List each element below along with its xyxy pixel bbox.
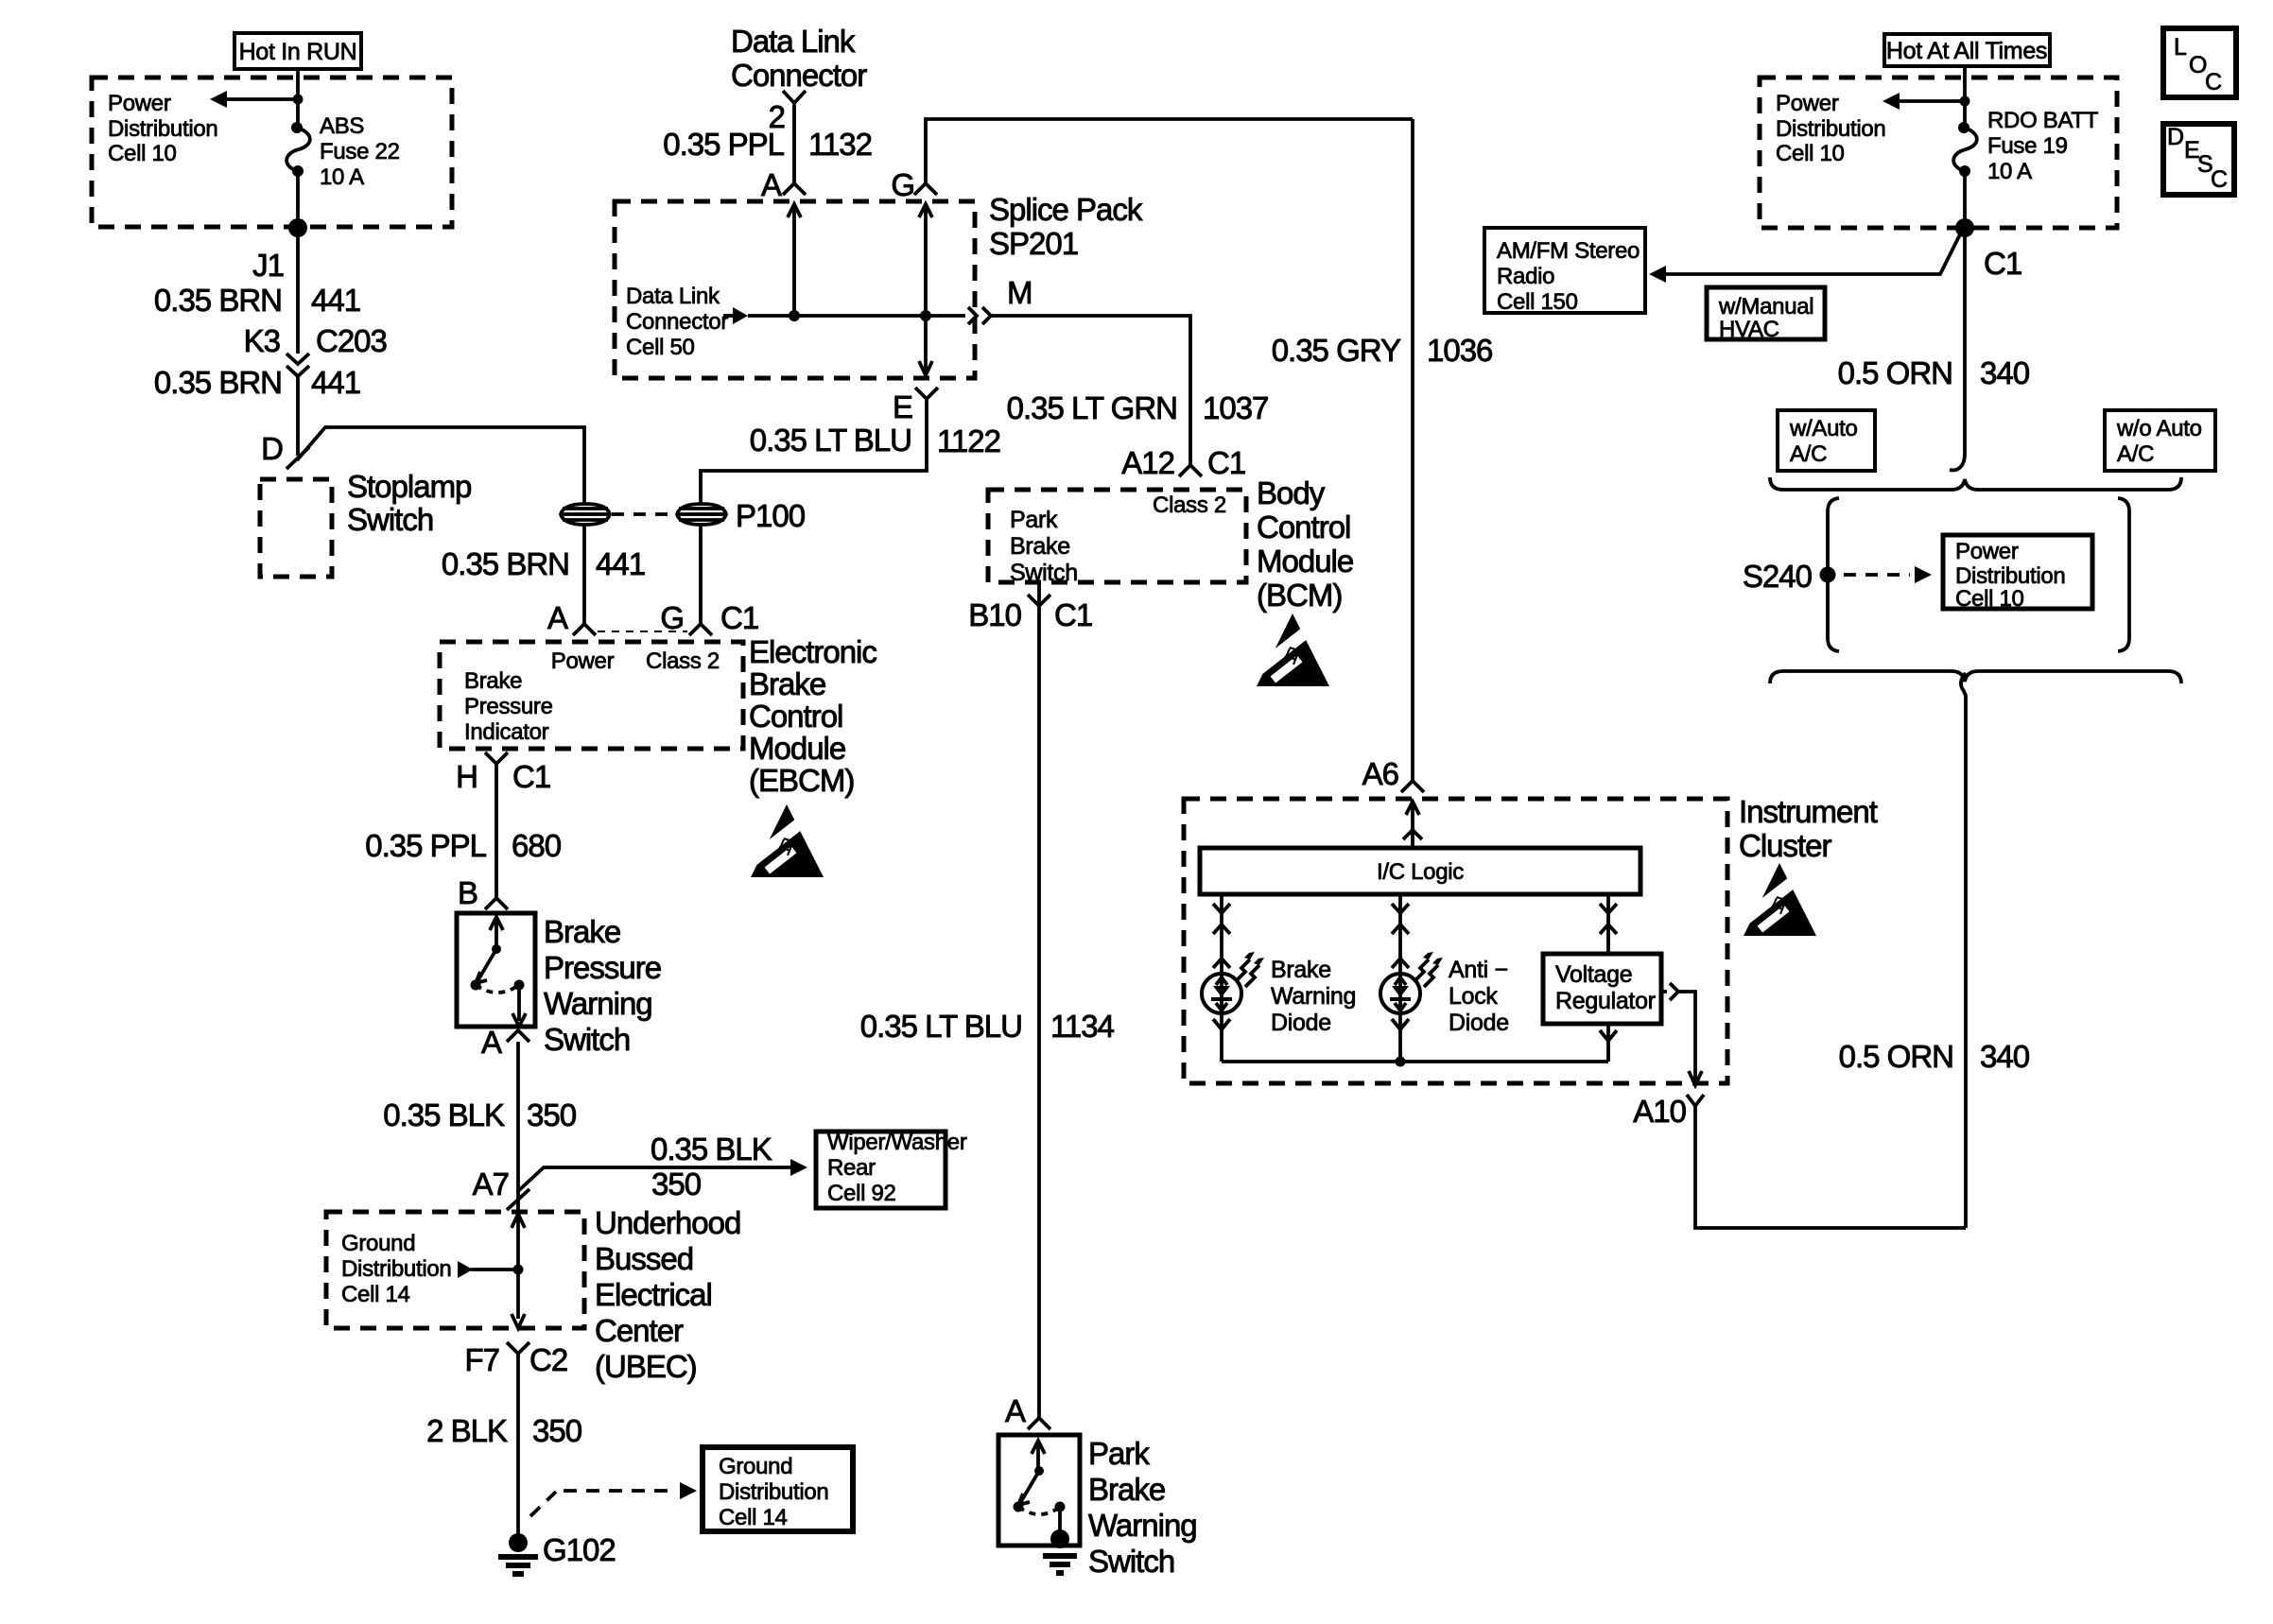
svg-text:Distribution: Distribution (719, 1479, 828, 1505)
svg-text:Instrument: Instrument (1739, 794, 1878, 829)
svg-text:Hot At All Times: Hot At All Times (1886, 38, 2047, 64)
svg-text:(EBCM): (EBCM) (749, 763, 854, 798)
wire H to B (495, 764, 498, 898)
svg-text:Cell 14: Cell 14 (719, 1505, 788, 1530)
grommet (left of P100) (561, 504, 610, 525)
Splice Pack dashed box (615, 201, 975, 378)
svg-text:Lock: Lock (1449, 983, 1498, 1010)
svg-text:(BCM): (BCM) (1257, 578, 1342, 613)
wire label 0.35 BRN 441 (second) (154, 365, 360, 400)
svg-text:A: A (761, 167, 782, 202)
svg-text:F7: F7 (464, 1342, 499, 1377)
up arrow into UBEC (512, 1214, 525, 1228)
dashed branch to Ground Distribution (530, 1482, 697, 1516)
wire from Hot In RUN to fuse (296, 69, 300, 127)
svg-text:Cell 50: Cell 50 (626, 335, 695, 360)
svg-text:1134: 1134 (1050, 1009, 1115, 1044)
fuse RDO BATT Fuse 19 10 A (1953, 108, 2099, 184)
I/C logic pin to voltage regulator (1600, 894, 1617, 954)
wire label 0.5 ORN 340 (lower) (1839, 1039, 2030, 1074)
splice pack bus with arrow (723, 307, 965, 324)
svg-text:0.35 BLK: 0.35 BLK (651, 1132, 772, 1166)
connector D (X splice to stoplamp wire) (261, 431, 309, 469)
svg-text:1132: 1132 (808, 127, 872, 162)
pin A of warning switch (481, 1025, 529, 1060)
park brake warning switch name (1088, 1436, 1197, 1579)
svg-text:1122: 1122 (937, 423, 1000, 458)
svg-text:RDO BATT: RDO BATT (1987, 108, 2099, 133)
svg-text:M: M (1007, 275, 1032, 310)
svg-text:340: 340 (1980, 355, 2030, 390)
pin A6 of instrument cluster (1362, 756, 1424, 792)
wire G up and right to GRY (926, 119, 1413, 183)
svg-text:Class 2: Class 2 (1153, 492, 1226, 518)
svg-text:Data Link: Data Link (626, 284, 720, 309)
svg-text:A/C: A/C (2117, 441, 2154, 467)
pin G of splice pack (891, 167, 937, 202)
svg-text:Cell 10: Cell 10 (1776, 141, 1845, 166)
wire label 0.35 PPL 680 (365, 828, 561, 863)
svg-text:A10: A10 (1633, 1094, 1686, 1129)
options brace (bottom) (1770, 671, 2181, 683)
svg-text:A12: A12 (1121, 445, 1174, 480)
BCM dashed box (988, 490, 1246, 586)
up arrow inside splice pack (G) (919, 204, 932, 316)
pin B of warning switch (458, 875, 508, 910)
svg-text:ABS: ABS (320, 113, 364, 139)
svg-text:441: 441 (311, 365, 360, 400)
switch internals (brake pressure warning switch) (471, 917, 527, 1027)
svg-text:K3: K3 (244, 323, 280, 358)
svg-text:w/Manual: w/Manual (1718, 294, 1813, 320)
svg-text:350: 350 (527, 1097, 577, 1132)
svg-text:Cell 150: Cell 150 (1497, 289, 1578, 315)
svg-text:Bussed: Bussed (595, 1241, 693, 1276)
svg-text:A/C: A/C (1790, 441, 1827, 467)
svg-text:Warning: Warning (1271, 983, 1356, 1010)
svg-text:Switch: Switch (1010, 560, 1078, 586)
svg-text:Park: Park (1010, 507, 1058, 533)
option bracket right (2118, 498, 2129, 651)
Ground Distribution Cell 14 box (bottom) (703, 1447, 853, 1531)
svg-text:Rear: Rear (827, 1155, 876, 1181)
svg-text:Brake: Brake (749, 666, 825, 701)
park brake switch internals (1014, 1441, 1078, 1573)
svg-text:Electrical: Electrical (595, 1277, 712, 1312)
svg-text:0.35 PPL: 0.35 PPL (365, 828, 486, 863)
options brace (top) (1770, 477, 2181, 490)
Power Distribution Cell 10 box (left, dashed) (92, 78, 452, 227)
svg-text:P100: P100 (736, 498, 806, 533)
svg-text:0.35 BLK: 0.35 BLK (383, 1097, 505, 1132)
svg-text:AM/FM Stereo: AM/FM Stereo (1497, 238, 1640, 264)
LOC box (2163, 28, 2236, 97)
svg-text:Warning: Warning (544, 986, 652, 1021)
svg-text:Cell 92: Cell 92 (827, 1181, 896, 1206)
switch name text (544, 914, 661, 1057)
svg-text:Fuse 22: Fuse 22 (320, 139, 400, 164)
I/C Logic box (1200, 848, 1640, 894)
wire fuse to C203 (296, 171, 300, 354)
Hot At All Times label box (1884, 34, 2050, 66)
diode/regulator ground bus (1222, 1057, 1608, 1067)
BCM name text (1257, 475, 1353, 613)
Voltage Regulator box (1543, 954, 1661, 1024)
svg-text:E: E (893, 389, 912, 424)
svg-text:Power: Power (551, 648, 615, 674)
svg-text:Brake: Brake (1088, 1472, 1165, 1507)
svg-text:10 A: 10 A (320, 164, 364, 190)
svg-text:C: C (2211, 166, 2228, 193)
svg-text:Ground: Ground (341, 1231, 415, 1256)
pin 2 of data link connector (769, 91, 806, 134)
svg-text:HVAC: HVAC (1719, 317, 1779, 342)
svg-text:Warning: Warning (1088, 1508, 1197, 1543)
svg-text:A: A (547, 600, 568, 635)
svg-text:2 BLK: 2 BLK (426, 1413, 508, 1448)
wire A6 into I/C logic (1403, 802, 1422, 848)
node: power distribution branch junction (293, 95, 304, 105)
pin A of EBCM (547, 600, 596, 635)
I/C logic pin to brake warning diode (1213, 894, 1230, 972)
svg-text:Switch: Switch (1088, 1544, 1174, 1579)
svg-text:D: D (261, 431, 283, 466)
ground G102 (498, 1532, 616, 1574)
svg-text:Control: Control (749, 699, 842, 734)
svg-text:Distribution: Distribution (1776, 116, 1885, 142)
svg-text:0.35 GRY: 0.35 GRY (1272, 333, 1401, 368)
wire label 0.35 LT BLU 1134 (860, 1009, 1115, 1044)
wire to AM/FM radio (1649, 231, 1962, 283)
wire label 2 BLK 350 (426, 1413, 582, 1448)
svg-text:Park: Park (1088, 1436, 1150, 1471)
wire fuse to C1 node (1963, 171, 1967, 228)
svg-text:0.35 BRN: 0.35 BRN (154, 365, 282, 400)
svg-text:Cell 14: Cell 14 (341, 1282, 410, 1307)
EBCM name text (749, 634, 876, 798)
svg-text:Center: Center (595, 1313, 684, 1348)
Data Link Connector title (731, 24, 867, 93)
pin A10 of instrument cluster (1633, 1094, 1704, 1129)
node J1 on box edge (288, 218, 307, 237)
svg-text:H: H (456, 759, 477, 794)
svg-text:L: L (2174, 34, 2187, 60)
svg-text:C1: C1 (1984, 246, 2021, 281)
w/Manual HVAC box (1707, 287, 1825, 342)
EBCM dashed box (440, 642, 743, 749)
svg-text:Distribution: Distribution (341, 1256, 451, 1282)
wire A to A7 (516, 1042, 520, 1270)
Instrument Cluster dashed box (1184, 799, 1727, 1083)
wire C203 to D (296, 376, 300, 456)
voltage regulator lower pin to bus (1600, 1024, 1617, 1062)
svg-text:Control: Control (1257, 510, 1350, 544)
svg-text:Regulator: Regulator (1555, 988, 1656, 1014)
wire label 0.35 BLK 350 (383, 1097, 576, 1132)
node C1 on box edge (1955, 218, 2021, 281)
svg-text:441: 441 (311, 283, 360, 318)
svg-text:0.35 LT BLU: 0.35 LT BLU (750, 423, 911, 458)
svg-text:Distribution: Distribution (1955, 563, 2065, 589)
w/Auto A/C box (1778, 410, 1875, 471)
svg-text:SP201: SP201 (989, 226, 1078, 261)
ESD symbol EBCM (739, 804, 824, 877)
svg-text:10 A: 10 A (1987, 159, 2032, 184)
svg-text:0.5 ORN: 0.5 ORN (1839, 1039, 1953, 1074)
svg-text:Brake: Brake (1010, 533, 1070, 560)
Splice Pack name (989, 192, 1143, 261)
AM/FM Stereo Radio Cell 150 box (1484, 228, 1645, 315)
svg-text:J1: J1 (252, 248, 284, 283)
svg-text:Electronic: Electronic (749, 634, 876, 669)
wire label 0.35 PPL 1132 (663, 127, 872, 162)
svg-text:Data Link: Data Link (731, 24, 856, 59)
wire E down from splice pack (919, 316, 932, 375)
svg-text:Connector: Connector (626, 309, 728, 335)
dashed link between pins A and G (598, 631, 687, 632)
svg-text:Power: Power (1776, 91, 1839, 116)
svg-text:Brake: Brake (464, 668, 522, 694)
svg-text:680: 680 (512, 828, 562, 863)
fuse ABS Fuse 22 10 A (286, 113, 400, 190)
svg-text:Fuse 19: Fuse 19 (1987, 133, 2068, 159)
svg-text:G: G (891, 167, 914, 202)
svg-text:Radio: Radio (1497, 264, 1554, 289)
svg-text:B10: B10 (968, 597, 1021, 632)
splice S240 (1743, 559, 1836, 594)
pin H C1 of EBCM (456, 752, 550, 794)
svg-text:A7: A7 (473, 1166, 509, 1201)
svg-text:Connector: Connector (731, 58, 867, 93)
wire P100 grommet to EBCM pin G (699, 526, 703, 623)
wire label 0.5 ORN 340 (upper) (1838, 355, 2030, 390)
svg-text:C: C (2205, 69, 2222, 95)
svg-text:A6: A6 (1362, 756, 1398, 791)
svg-text:Stoplamp: Stoplamp (347, 469, 471, 504)
svg-text:Hot In RUN: Hot In RUN (239, 39, 357, 65)
svg-text:Switch: Switch (544, 1022, 630, 1057)
ESD symbol BCM (1245, 613, 1329, 686)
svg-text:Wiper/Washer: Wiper/Washer (827, 1130, 967, 1155)
svg-text:(UBEC): (UBEC) (595, 1349, 697, 1384)
ESD symbol instrument cluster (1732, 863, 1816, 936)
svg-text:Body: Body (1257, 475, 1326, 510)
svg-text:C203: C203 (316, 323, 387, 358)
svg-text:0.35 PPL: 0.35 PPL (663, 127, 784, 162)
dashed arrow S240 to Power Distribution (1844, 566, 1932, 583)
pin G C1 of EBCM (660, 600, 758, 635)
wire C1 down to options brace (1950, 228, 1965, 470)
brake warning diode label (1271, 957, 1356, 1036)
wire label 0.35 GRY 1036 (1272, 333, 1493, 368)
node: right power distribution junction (1960, 96, 1970, 107)
svg-text:Power: Power (108, 91, 171, 116)
grommet P100 (677, 498, 806, 533)
up arrow inside splice pack (A) (788, 204, 801, 316)
svg-text:0.5 ORN: 0.5 ORN (1838, 355, 1952, 390)
wire A10 to ORN wire (1695, 1106, 1966, 1228)
voltage regulator output connector (1661, 983, 1678, 1000)
svg-text:G102: G102 (543, 1532, 616, 1567)
connector A7 (X splice) (473, 1166, 529, 1210)
svg-text:1036: 1036 (1427, 333, 1492, 368)
wire GRY down to instrument cluster A6 (1411, 119, 1414, 781)
svg-text:Diode: Diode (1449, 1010, 1509, 1036)
wire label 0.35 LT BLU 1122 (750, 423, 1000, 458)
svg-text:Pressure: Pressure (544, 950, 661, 985)
wire through UBEC with down arrow (512, 1270, 525, 1328)
wire D up-right then to grommet (297, 427, 584, 504)
svg-text:1037: 1037 (1203, 390, 1268, 425)
svg-text:w/Auto: w/Auto (1789, 416, 1858, 441)
svg-text:Switch: Switch (347, 502, 433, 537)
svg-text:350: 350 (532, 1413, 582, 1448)
connector C203 pin K3 (inline double chevron) (244, 323, 387, 376)
DESC box (2163, 124, 2234, 195)
anti-lock diode (1380, 952, 1443, 1013)
svg-text:C2: C2 (529, 1342, 567, 1377)
svg-text:I/C Logic: I/C Logic (1377, 859, 1464, 885)
svg-text:A: A (1005, 1393, 1026, 1428)
svg-text:Cluster: Cluster (1739, 828, 1832, 863)
svg-text:Voltage: Voltage (1555, 961, 1632, 988)
wire label 0.35 BRN 441 (154, 283, 360, 318)
pin F7 C2 of UBEC (464, 1342, 567, 1377)
wire regulator output to A10 (1678, 992, 1702, 1085)
svg-text:0.35 BRN: 0.35 BRN (442, 546, 569, 581)
Power Distribution Cell 10 box (S240 ref) (1943, 535, 2092, 612)
pin A of park brake warning switch (1005, 1393, 1050, 1429)
svg-text:340: 340 (1980, 1039, 2030, 1074)
svg-text:0.35 BRN: 0.35 BRN (154, 283, 282, 318)
Ground Distribution Cell 14 text (in UBEC) (341, 1231, 451, 1307)
wire from brace down (0.5 ORN) (1961, 673, 1966, 1228)
svg-text:Anti −: Anti − (1449, 957, 1508, 983)
svg-text:Class 2: Class 2 (646, 648, 720, 674)
connector M (double chevron) (968, 275, 1032, 324)
wire M to BCM A12 (991, 316, 1190, 465)
branch wire to Wiper/Washer (518, 1132, 807, 1201)
wire grommet to EBCM pin A (582, 526, 586, 623)
option bracket left (1828, 498, 1839, 651)
wire E to P100 grommet (701, 399, 927, 504)
svg-text:350: 350 (651, 1166, 702, 1201)
svg-text:A: A (481, 1025, 502, 1060)
svg-text:Cell 10: Cell 10 (108, 141, 177, 166)
svg-text:Cell 10: Cell 10 (1955, 586, 2024, 612)
w/o Auto A/C box (2105, 410, 2215, 471)
Brake Pressure Warning Switch box (457, 913, 535, 1027)
wire B10 to park brake warning switch (1037, 582, 1041, 1418)
Hot In RUN label box (234, 33, 361, 69)
svg-text:Pressure: Pressure (464, 694, 553, 719)
svg-text:Module: Module (1257, 544, 1353, 579)
svg-text:Power: Power (1955, 539, 2019, 564)
svg-text:Ground: Ground (719, 1454, 792, 1479)
svg-text:Diode: Diode (1271, 1010, 1331, 1036)
brake warning diode (1202, 952, 1264, 1013)
dashed harness line between grommets (612, 512, 676, 516)
anti-lock diode label (1449, 957, 1509, 1036)
Instrument Cluster name (1739, 794, 1878, 863)
svg-text:C1: C1 (1207, 445, 1245, 480)
svg-text:Brake: Brake (1271, 957, 1331, 983)
pin A12 C1 of BCM (1121, 445, 1245, 480)
diode lower pin to bus (1213, 1013, 1230, 1062)
svg-text:w/o Auto: w/o Auto (2116, 416, 2202, 441)
Power Distribution Cell 10 box (right, dashed) (1760, 78, 2117, 228)
svg-text:Distribution: Distribution (108, 116, 217, 142)
svg-text:441: 441 (596, 546, 645, 581)
ground distribution stub arrow (458, 1261, 524, 1278)
svg-text:S240: S240 (1743, 559, 1813, 594)
arrow to Power Distribution (right) (1883, 93, 1965, 110)
svg-text:G: G (660, 600, 684, 635)
svg-text:B: B (458, 875, 477, 910)
anti-lock diode lower pin to bus (1392, 1013, 1409, 1062)
svg-text:C1: C1 (720, 600, 758, 635)
UBEC name text (595, 1205, 740, 1384)
UBEC dashed box (326, 1212, 584, 1328)
svg-text:Underhood: Underhood (595, 1205, 740, 1240)
svg-text:Brake: Brake (544, 914, 620, 949)
svg-text:C1: C1 (512, 759, 550, 794)
svg-text:Indicator: Indicator (464, 719, 549, 745)
pin B10 C1 of BCM (968, 595, 1092, 632)
I/C logic pin to anti-lock diode (1392, 894, 1409, 972)
svg-text:Splice Pack: Splice Pack (989, 192, 1143, 227)
Stoplamp Switch dashed box (260, 469, 471, 577)
Park Brake Warning Switch box (998, 1435, 1080, 1546)
Wiper/Washer Rear Cell 92 box (816, 1130, 967, 1208)
wire: arrow to Power Distribution (210, 91, 298, 108)
wire label 0.35 BRN 441 (to EBCM A) (442, 546, 645, 581)
svg-text:D: D (2167, 124, 2184, 150)
wire F7 to G102 (516, 1354, 520, 1539)
wire pin2 to splice pack (792, 103, 796, 183)
wire label 0.35 LT GRN 1037 (1007, 390, 1269, 425)
svg-text:0.35 LT BLU: 0.35 LT BLU (860, 1009, 1022, 1044)
svg-text:0.35 LT GRN: 0.35 LT GRN (1007, 390, 1177, 425)
wire Hot At All Times to fuse (1963, 66, 1967, 127)
svg-text:Module: Module (749, 731, 845, 766)
svg-text:C1: C1 (1054, 597, 1092, 632)
pin E below splice pack (893, 388, 938, 424)
pin A of splice pack (761, 167, 806, 202)
